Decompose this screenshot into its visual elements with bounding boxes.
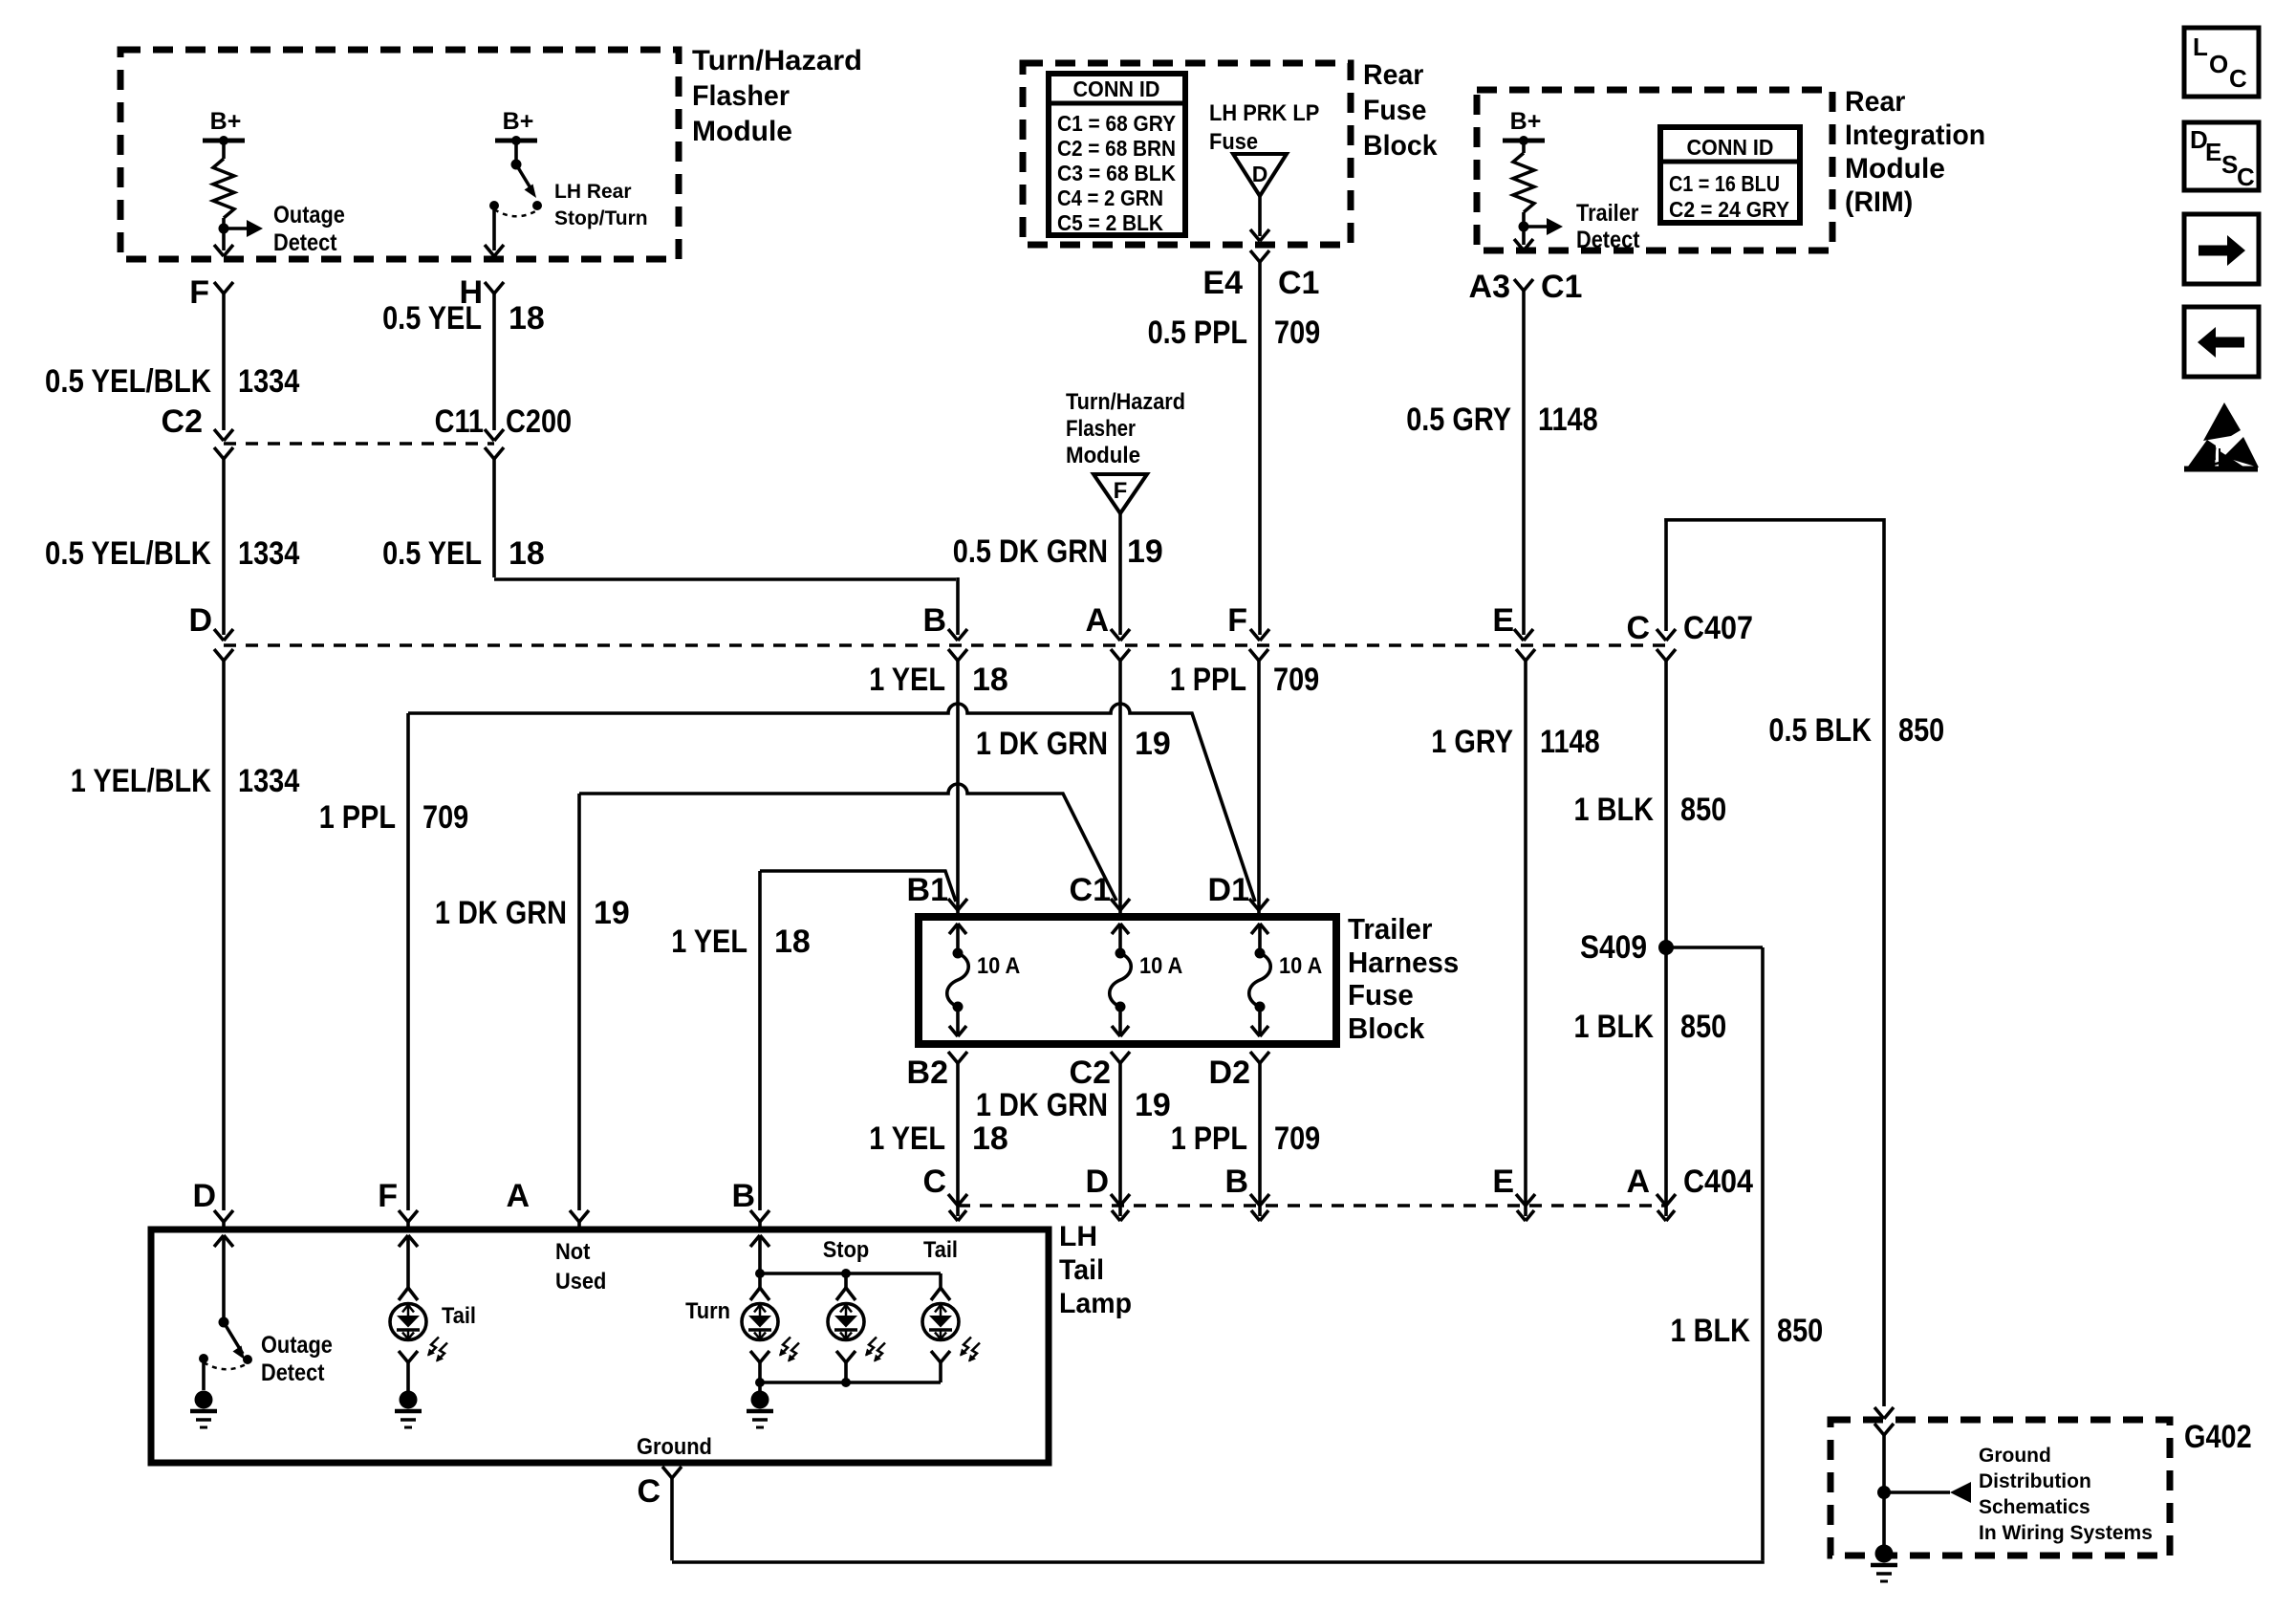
svg-text:1 BLK: 1 BLK: [1671, 1313, 1751, 1349]
svg-text:18: 18: [972, 662, 1008, 698]
svg-text:Block: Block: [1348, 1012, 1425, 1045]
svg-text:Trailer: Trailer: [1348, 912, 1432, 946]
svg-text:D: D: [192, 1178, 216, 1214]
svg-text:O: O: [2209, 50, 2228, 78]
svg-text:1334: 1334: [238, 363, 299, 400]
svg-text:709: 709: [1274, 1120, 1320, 1157]
svg-text:0.5 YEL/BLK: 0.5 YEL/BLK: [45, 363, 211, 400]
svg-text:Ground: Ground: [1979, 1445, 2051, 1467]
svg-text:850: 850: [1680, 1009, 1726, 1045]
svg-text:Detect: Detect: [1576, 227, 1640, 253]
svg-text:19: 19: [1127, 533, 1163, 570]
svg-text:Outage: Outage: [273, 202, 345, 228]
svg-text:S409: S409: [1580, 929, 1647, 966]
svg-text:C3 = 68 BLK: C3 = 68 BLK: [1057, 161, 1176, 185]
svg-text:Trailer: Trailer: [1576, 200, 1639, 227]
svg-text:709: 709: [1273, 662, 1319, 698]
svg-text:Integration: Integration: [1845, 120, 1985, 151]
svg-text:S: S: [2221, 150, 2238, 179]
svg-text:Used: Used: [555, 1269, 606, 1295]
svg-text:Ground: Ground: [637, 1434, 712, 1460]
svg-text:Module: Module: [692, 116, 792, 147]
svg-text:C: C: [2237, 163, 2255, 191]
svg-text:C407: C407: [1683, 610, 1753, 646]
svg-text:Detect: Detect: [261, 1360, 325, 1386]
svg-text:Rear: Rear: [1845, 86, 1906, 118]
svg-text:1 BLK: 1 BLK: [1574, 1009, 1655, 1045]
svg-text:Turn: Turn: [685, 1298, 730, 1324]
svg-text:G402: G402: [2184, 1419, 2252, 1455]
svg-text:E: E: [1492, 1164, 1514, 1200]
svg-text:A3: A3: [1469, 269, 1510, 305]
svg-text:18: 18: [509, 535, 545, 572]
svg-text:F: F: [1227, 602, 1247, 639]
svg-text:D: D: [1252, 162, 1268, 186]
svg-text:709: 709: [422, 799, 468, 836]
svg-text:CONN ID: CONN ID: [1687, 135, 1774, 160]
svg-text:0.5 YEL: 0.5 YEL: [382, 535, 482, 572]
svg-text:1 PPL: 1 PPL: [1171, 1120, 1247, 1157]
svg-text:0.5 YEL: 0.5 YEL: [382, 300, 482, 337]
svg-text:Schematics: Schematics: [1979, 1496, 2090, 1518]
svg-text:D1: D1: [1208, 872, 1249, 908]
svg-text:C1 = 16 BLU: C1 = 16 BLU: [1669, 171, 1780, 196]
svg-text:In Wiring Systems: In Wiring Systems: [1979, 1522, 2153, 1544]
svg-text:C: C: [922, 1164, 946, 1200]
svg-text:Outage: Outage: [261, 1332, 333, 1359]
svg-text:C: C: [637, 1473, 661, 1510]
svg-text:F: F: [378, 1178, 398, 1214]
svg-text:B+: B+: [503, 108, 534, 135]
svg-text:Detect: Detect: [273, 229, 337, 256]
svg-text:1 PPL: 1 PPL: [1170, 662, 1246, 698]
svg-text:19: 19: [594, 895, 630, 931]
svg-text:Flasher: Flasher: [1066, 416, 1136, 442]
svg-text:18: 18: [509, 300, 545, 337]
svg-text:Tail: Tail: [1059, 1254, 1104, 1286]
svg-text:B+: B+: [1510, 108, 1542, 135]
svg-text:Fuse: Fuse: [1209, 129, 1258, 155]
svg-text:B: B: [731, 1178, 755, 1214]
svg-text:C2 = 24 GRY: C2 = 24 GRY: [1669, 197, 1789, 222]
svg-text:B1: B1: [907, 872, 948, 908]
svg-text:850: 850: [1898, 712, 1944, 749]
svg-text:Turn/Hazard: Turn/Hazard: [692, 45, 862, 76]
svg-text:C2: C2: [162, 403, 203, 440]
svg-text:E: E: [2205, 138, 2221, 166]
svg-text:10 A: 10 A: [1279, 953, 1322, 979]
svg-text:E: E: [1492, 602, 1514, 639]
svg-text:L: L: [2193, 33, 2208, 61]
svg-text:C2 = 68 BRN: C2 = 68 BRN: [1057, 136, 1176, 161]
svg-text:Stop/Turn: Stop/Turn: [554, 207, 648, 229]
svg-text:C5 = 2 BLK: C5 = 2 BLK: [1057, 210, 1163, 235]
svg-text:B+: B+: [210, 108, 242, 135]
svg-text:E4: E4: [1202, 265, 1243, 301]
svg-text:Rear: Rear: [1363, 59, 1424, 91]
svg-text:1 GRY: 1 GRY: [1431, 724, 1513, 760]
svg-text:1 BLK: 1 BLK: [1574, 792, 1655, 828]
svg-text:0.5 BLK: 0.5 BLK: [1768, 712, 1872, 749]
svg-text:LH PRK LP: LH PRK LP: [1209, 100, 1319, 126]
svg-text:1 DK GRN: 1 DK GRN: [976, 1087, 1108, 1123]
svg-text:C: C: [2229, 64, 2247, 93]
svg-text:Harness: Harness: [1348, 946, 1459, 979]
svg-text:C2: C2: [1070, 1055, 1111, 1091]
svg-text:1334: 1334: [238, 763, 299, 799]
svg-text:C1 = 68 GRY: C1 = 68 GRY: [1057, 111, 1176, 136]
svg-text:1 YEL/BLK: 1 YEL/BLK: [71, 763, 212, 799]
svg-text:B2: B2: [907, 1055, 948, 1091]
svg-text:A: A: [506, 1178, 530, 1214]
svg-text:B: B: [922, 602, 946, 639]
svg-text:Module: Module: [1845, 153, 1945, 185]
svg-text:B: B: [1224, 1164, 1248, 1200]
svg-text:(RIM): (RIM): [1845, 186, 1913, 218]
svg-text:Tail: Tail: [442, 1303, 476, 1329]
svg-text:Lamp: Lamp: [1059, 1288, 1132, 1319]
svg-text:1 YEL: 1 YEL: [869, 662, 945, 698]
svg-text:F: F: [189, 274, 209, 311]
svg-text:Module: Module: [1066, 443, 1140, 468]
svg-text:D2: D2: [1209, 1055, 1250, 1091]
svg-text:709: 709: [1274, 315, 1320, 351]
svg-text:1 YEL: 1 YEL: [869, 1120, 945, 1157]
svg-text:C1: C1: [1278, 265, 1319, 301]
svg-text:C404: C404: [1683, 1164, 1753, 1200]
svg-text:C4 = 2 GRN: C4 = 2 GRN: [1057, 185, 1163, 210]
svg-text:A: A: [1085, 602, 1109, 639]
svg-text:Stop: Stop: [823, 1237, 870, 1263]
svg-text:10 A: 10 A: [977, 953, 1020, 979]
svg-text:Not: Not: [555, 1239, 590, 1265]
svg-text:D: D: [1085, 1164, 1109, 1200]
svg-text:C1: C1: [1070, 872, 1111, 908]
svg-text:C11: C11: [435, 403, 484, 440]
svg-text:1 PPL: 1 PPL: [319, 799, 396, 836]
svg-text:1 DK GRN: 1 DK GRN: [435, 895, 567, 931]
svg-text:18: 18: [972, 1120, 1008, 1157]
svg-text:18: 18: [774, 924, 811, 960]
svg-text:Block: Block: [1363, 130, 1438, 162]
svg-text:Fuse: Fuse: [1363, 95, 1427, 126]
svg-text:F: F: [1114, 478, 1128, 504]
svg-text:LH Rear: LH Rear: [554, 181, 632, 203]
svg-text:1334: 1334: [238, 535, 299, 572]
svg-text:Turn/Hazard: Turn/Hazard: [1066, 389, 1185, 415]
svg-text:1 DK GRN: 1 DK GRN: [976, 726, 1108, 762]
svg-text:1 YEL: 1 YEL: [671, 924, 747, 960]
svg-text:C200: C200: [506, 403, 572, 440]
svg-text:0.5 DK GRN: 0.5 DK GRN: [953, 533, 1108, 570]
svg-text:1148: 1148: [1538, 402, 1598, 438]
svg-text:Fuse: Fuse: [1348, 978, 1414, 1012]
svg-text:19: 19: [1135, 726, 1171, 762]
svg-text:Tail: Tail: [923, 1237, 958, 1263]
svg-text:850: 850: [1680, 792, 1726, 828]
svg-text:10 A: 10 A: [1139, 953, 1182, 979]
svg-text:C: C: [1626, 610, 1650, 646]
svg-text:0.5 GRY: 0.5 GRY: [1406, 402, 1511, 438]
svg-text:CONN ID: CONN ID: [1073, 76, 1160, 101]
svg-text:C1: C1: [1541, 269, 1582, 305]
svg-text:0.5 PPL: 0.5 PPL: [1148, 315, 1247, 351]
svg-text:D: D: [188, 602, 212, 639]
svg-text:0.5 YEL/BLK: 0.5 YEL/BLK: [45, 535, 211, 572]
svg-text:LH: LH: [1059, 1221, 1097, 1252]
svg-text:19: 19: [1135, 1087, 1171, 1123]
svg-text:Flasher: Flasher: [692, 80, 790, 112]
svg-text:1148: 1148: [1540, 724, 1600, 760]
svg-text:850: 850: [1777, 1313, 1823, 1349]
svg-text:A: A: [1626, 1164, 1650, 1200]
svg-text:Distribution: Distribution: [1979, 1470, 2091, 1492]
